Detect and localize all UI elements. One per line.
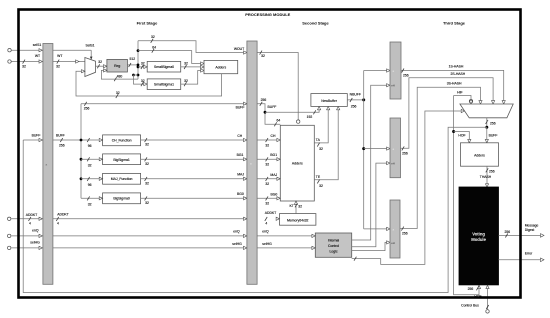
svg-text:BigSigma1: BigSigma1	[113, 158, 130, 162]
wire CH into adders2	[257, 139, 280, 141]
svg-text:MAJ: MAJ	[270, 173, 277, 177]
wire NBUFF output	[347, 99, 363, 101]
svg-text:192: 192	[307, 115, 313, 119]
svg-text:32: 32	[145, 143, 149, 147]
svg-text:256: 256	[351, 104, 357, 108]
svg-text:Adders: Adders	[215, 66, 226, 70]
svg-text:32: 32	[141, 79, 145, 83]
wire selS1 select drop into mux1	[90, 50, 92, 58]
svg-text:32: 32	[145, 162, 149, 166]
function MAJ_Function	[103, 173, 141, 184]
svg-text:BG1: BG1	[237, 153, 244, 157]
node open circle at adders top	[297, 120, 300, 123]
wire KT memory to adders2	[295, 203, 297, 214]
wire tap to SmallSigma1	[134, 75, 148, 84]
wire Message Digest output	[499, 234, 541, 236]
wire selHG input	[11, 247, 39, 249]
mux U3 (third stage hash mux)	[460, 104, 513, 118]
svg-text:Internal: Internal	[328, 239, 340, 243]
wire WT input	[12, 61, 40, 63]
register bar B (hash register 2)	[390, 118, 401, 178]
function SmallSigma1	[147, 79, 181, 90]
wire MAJ into adders2	[257, 178, 280, 180]
svg-text:enQ: enQ	[32, 228, 39, 232]
svg-text:Second Stage: Second Stage	[302, 21, 329, 26]
wire MAJ output to bar2	[141, 178, 244, 180]
svg-text:256: 256	[84, 107, 90, 111]
wire Reg output 512	[127, 64, 138, 66]
svg-text:selHG: selHG	[232, 242, 242, 246]
wire TE output to NewBuffer	[314, 108, 338, 180]
svg-text:NBUFF: NBUFF	[350, 92, 361, 96]
wire 480 feedback loop to Reg	[101, 70, 138, 79]
adder block Adders (third stage)	[461, 143, 499, 166]
svg-text:selHG: selHG	[30, 241, 40, 245]
function CH_Function	[103, 135, 141, 146]
wire BUFF into bar1 (return from third stage)	[23, 139, 39, 141]
svg-text:SmallSigma0: SmallSigma0	[154, 65, 174, 69]
input port WT	[8, 60, 11, 63]
wire enQ through bar1 to bar2	[53, 235, 244, 237]
adder block Adders (second stage)	[280, 125, 314, 201]
adder block U2 Adders (first stage)	[204, 60, 238, 73]
svg-text:1S-HASH: 1S-HASH	[449, 64, 464, 68]
svg-text:HOF: HOF	[458, 134, 465, 138]
svg-text:96: 96	[88, 144, 92, 148]
svg-text:Adders: Adders	[292, 162, 303, 166]
svg-text:32: 32	[319, 147, 323, 151]
wire enQ input	[11, 235, 39, 237]
wire B 64 to first stage adders	[138, 51, 204, 64]
wire junction to NewBuffer input1	[265, 108, 319, 112]
svg-text:Error: Error	[525, 252, 533, 256]
svg-text:32: 32	[151, 35, 155, 39]
wire first stage adders output feedback to mux1	[76, 71, 222, 96]
svg-text:BG1: BG1	[270, 153, 277, 157]
register bar A (hash register 1)	[390, 42, 401, 99]
svg-text:WOUT: WOUT	[234, 47, 244, 51]
wire BUFF from bar2 to junction	[257, 104, 280, 125]
wire HOF chain vertical	[454, 96, 479, 295]
svg-text:32: 32	[88, 202, 92, 206]
wire SmallSigma1 output to adders	[181, 71, 204, 85]
svg-text:MAJ_Function: MAJ_Function	[111, 177, 133, 181]
wire NBUFF to bar C input	[364, 228, 387, 230]
svg-text:4: 4	[29, 221, 31, 225]
svg-text:32: 32	[116, 91, 120, 95]
svg-text:BUFF: BUFF	[32, 134, 41, 138]
function BigSigma1	[103, 154, 141, 165]
svg-text:First Stage: First Stage	[137, 21, 158, 26]
svg-text:256: 256	[402, 232, 408, 236]
svg-text:SelS1: SelS1	[85, 44, 94, 48]
svg-text:32: 32	[184, 62, 188, 66]
wire BUFF through bar1 to function junction	[53, 139, 103, 141]
svg-text:32: 32	[98, 60, 102, 64]
svg-text:Reg: Reg	[114, 64, 120, 68]
svg-text:512: 512	[129, 57, 135, 61]
svg-text:BUFF: BUFF	[268, 105, 277, 109]
svg-text:32: 32	[265, 163, 269, 167]
wire Control Bus input	[487, 285, 489, 309]
wire Error output	[499, 259, 541, 261]
svg-text:32: 32	[56, 65, 60, 69]
svg-text:256: 256	[489, 169, 495, 173]
svg-text:256: 256	[402, 151, 408, 155]
svg-text:ADDKT: ADDKT	[265, 211, 277, 215]
svg-text:3S-HASH: 3S-HASH	[447, 81, 462, 85]
svg-text:ADDKT: ADDKT	[26, 213, 38, 217]
svg-text:HIF: HIF	[457, 91, 462, 95]
svg-text:THASH: THASH	[480, 175, 492, 179]
svg-text:BG0: BG0	[271, 192, 278, 196]
svg-text:BUFF: BUFF	[56, 134, 65, 138]
wire HIF into mux3	[454, 96, 471, 105]
wire mux1 output to Reg	[96, 65, 107, 67]
svg-text:32: 32	[261, 54, 265, 58]
svg-text:Adders: Adders	[474, 154, 485, 158]
svg-text:TA: TA	[316, 138, 321, 142]
control block Internal Control Logic	[315, 233, 351, 257]
input port selS1	[8, 49, 11, 52]
svg-text:WT: WT	[35, 54, 40, 58]
mux U1 SelS1	[85, 58, 96, 77]
wire BG1 into adders2	[257, 158, 280, 160]
wire BG0 into adders2	[257, 197, 280, 199]
svg-text:selHG: selHG	[262, 242, 272, 246]
svg-text:eH: eH	[391, 241, 395, 245]
svg-text:32: 32	[184, 79, 188, 83]
svg-text:256: 256	[504, 230, 510, 234]
node NBUFF vertical distribution	[363, 71, 365, 229]
wire ADDKT through bar1 to bar2	[53, 218, 244, 220]
svg-text:Memory64x32: Memory64x32	[287, 218, 309, 222]
svg-text:Control Bus: Control Bus	[461, 304, 479, 308]
wire THASH output to voting module	[486, 166, 488, 185]
wire feedback into mux1 second input	[82, 70, 85, 73]
function SmallSigma0	[147, 61, 181, 72]
svg-text:Control: Control	[328, 244, 339, 248]
svg-text:SmallSigma1: SmallSigma1	[154, 82, 174, 86]
svg-text:MAJ: MAJ	[237, 173, 244, 177]
svg-text:32: 32	[319, 184, 323, 188]
wire WT through bar1 to mux1	[53, 61, 85, 63]
svg-text:32: 32	[22, 65, 26, 69]
svg-text:Digest: Digest	[525, 228, 535, 232]
svg-text:32: 32	[88, 163, 92, 167]
svg-text:2S-HASH: 2S-HASH	[451, 72, 466, 76]
input port ADDKT	[8, 217, 11, 220]
svg-text:64: 64	[152, 45, 156, 49]
svg-text:TE: TE	[316, 175, 321, 179]
svg-text:enQ: enQ	[262, 229, 269, 233]
svg-text:selS1: selS1	[33, 43, 42, 47]
svg-text:enQ: enQ	[233, 229, 240, 233]
svg-text:BUFF: BUFF	[489, 134, 498, 138]
wire ICL to bar B enable eH	[352, 163, 387, 247]
svg-text:64: 64	[277, 118, 281, 122]
svg-text:32: 32	[145, 181, 149, 185]
svg-text:CH_Function: CH_Function	[112, 139, 132, 143]
wire WOUT 32 from bar2 down to second stage adders	[257, 53, 298, 120]
input port selHG	[8, 246, 11, 249]
svg-text:BigSigma0: BigSigma0	[113, 197, 130, 201]
wire selHG into ICL	[257, 247, 315, 249]
svg-text:32: 32	[265, 202, 269, 206]
wire NBUFF to bar B input	[364, 148, 387, 150]
wire ADDKT input	[11, 218, 39, 220]
wire into SmallSigma0	[138, 66, 147, 68]
wire enQ into ICL	[257, 235, 315, 237]
input port enQ	[8, 234, 11, 237]
wire selS1 input	[12, 49, 40, 51]
svg-text:256: 256	[261, 98, 267, 102]
wire TA output to NewBuffer	[314, 108, 328, 143]
wire A 32 to WOUT	[138, 41, 244, 53]
memory block Memory64x32	[280, 214, 316, 226]
svg-text:32: 32	[145, 201, 149, 205]
wire BG1 output to bar2	[141, 158, 244, 160]
register bar C (hash register 3)	[390, 200, 400, 258]
wire BUFF into adders3	[486, 127, 488, 140]
svg-text:NewBuffer: NewBuffer	[321, 99, 338, 103]
wire ICL to bar C enable eH	[352, 242, 387, 250]
wire BUFF return loop to bar1	[23, 127, 487, 292]
svg-text:96: 96	[88, 183, 92, 187]
svg-text:BUFF: BUFF	[236, 105, 245, 109]
svg-text:256: 256	[468, 287, 474, 291]
register bar2 (second stage input register)	[247, 41, 257, 284]
svg-text:eH: eH	[391, 84, 395, 88]
wire BG0 output to bar2	[141, 197, 244, 199]
svg-text:Message: Message	[525, 223, 539, 227]
svg-text:480: 480	[117, 75, 123, 79]
wire 2S-HASH bar B to mux3	[401, 78, 494, 149]
svg-text:Module: Module	[471, 237, 486, 242]
svg-text:ADDKT: ADDKT	[57, 213, 69, 217]
svg-text:Voting: Voting	[472, 231, 485, 236]
wire CH output to bar2	[141, 139, 244, 141]
node BUFF vertical distribution	[80, 104, 82, 199]
wire BUFF 256 up to bar2	[81, 103, 244, 105]
svg-text:CH: CH	[271, 134, 276, 138]
wire mux3 output 256	[486, 118, 488, 128]
svg-text:BG0: BG0	[237, 192, 244, 196]
svg-text:Third Stage: Third Stage	[443, 21, 466, 26]
wire 1S-HASH bar A to mux3	[401, 70, 504, 104]
svg-text:256: 256	[59, 143, 65, 147]
wire 3S-HASH bar C to mux3	[400, 87, 481, 228]
wire selS1 through bar1	[53, 49, 91, 51]
register bar1 (first stage input register)	[43, 44, 53, 285]
voting block Voting Module	[459, 187, 499, 285]
svg-text:PROCESSING MODULE: PROCESSING MODULE	[245, 12, 290, 17]
wire selHG through bar1 to bar2	[53, 247, 244, 249]
svg-text:32: 32	[265, 182, 269, 186]
wire ICL to third stage mux select	[352, 111, 462, 264]
svg-text:32: 32	[298, 205, 302, 209]
wire SmallSigma0 output to adders	[181, 66, 204, 68]
svg-text:256: 256	[403, 74, 409, 78]
buffer block NewBuffer	[311, 94, 347, 107]
svg-text:4: 4	[57, 222, 59, 226]
svg-text:4: 4	[265, 222, 267, 226]
svg-text:32: 32	[265, 143, 269, 147]
wire HOF tap into adders3	[454, 132, 470, 141]
svg-text:WT: WT	[57, 54, 62, 58]
wire NBUFF to bar A input	[364, 70, 387, 72]
wire ICL to bar A enable eH	[352, 85, 387, 240]
svg-text:CH: CH	[237, 134, 242, 138]
register Reg	[107, 59, 128, 72]
svg-text:Logic: Logic	[329, 249, 337, 253]
svg-text:KT: KT	[290, 204, 294, 208]
svg-text:256: 256	[490, 121, 496, 125]
wire node vertical x138	[137, 41, 139, 79]
svg-text:32: 32	[141, 62, 145, 66]
svg-text:eH: eH	[391, 162, 395, 166]
function BigSigma0	[103, 193, 141, 204]
